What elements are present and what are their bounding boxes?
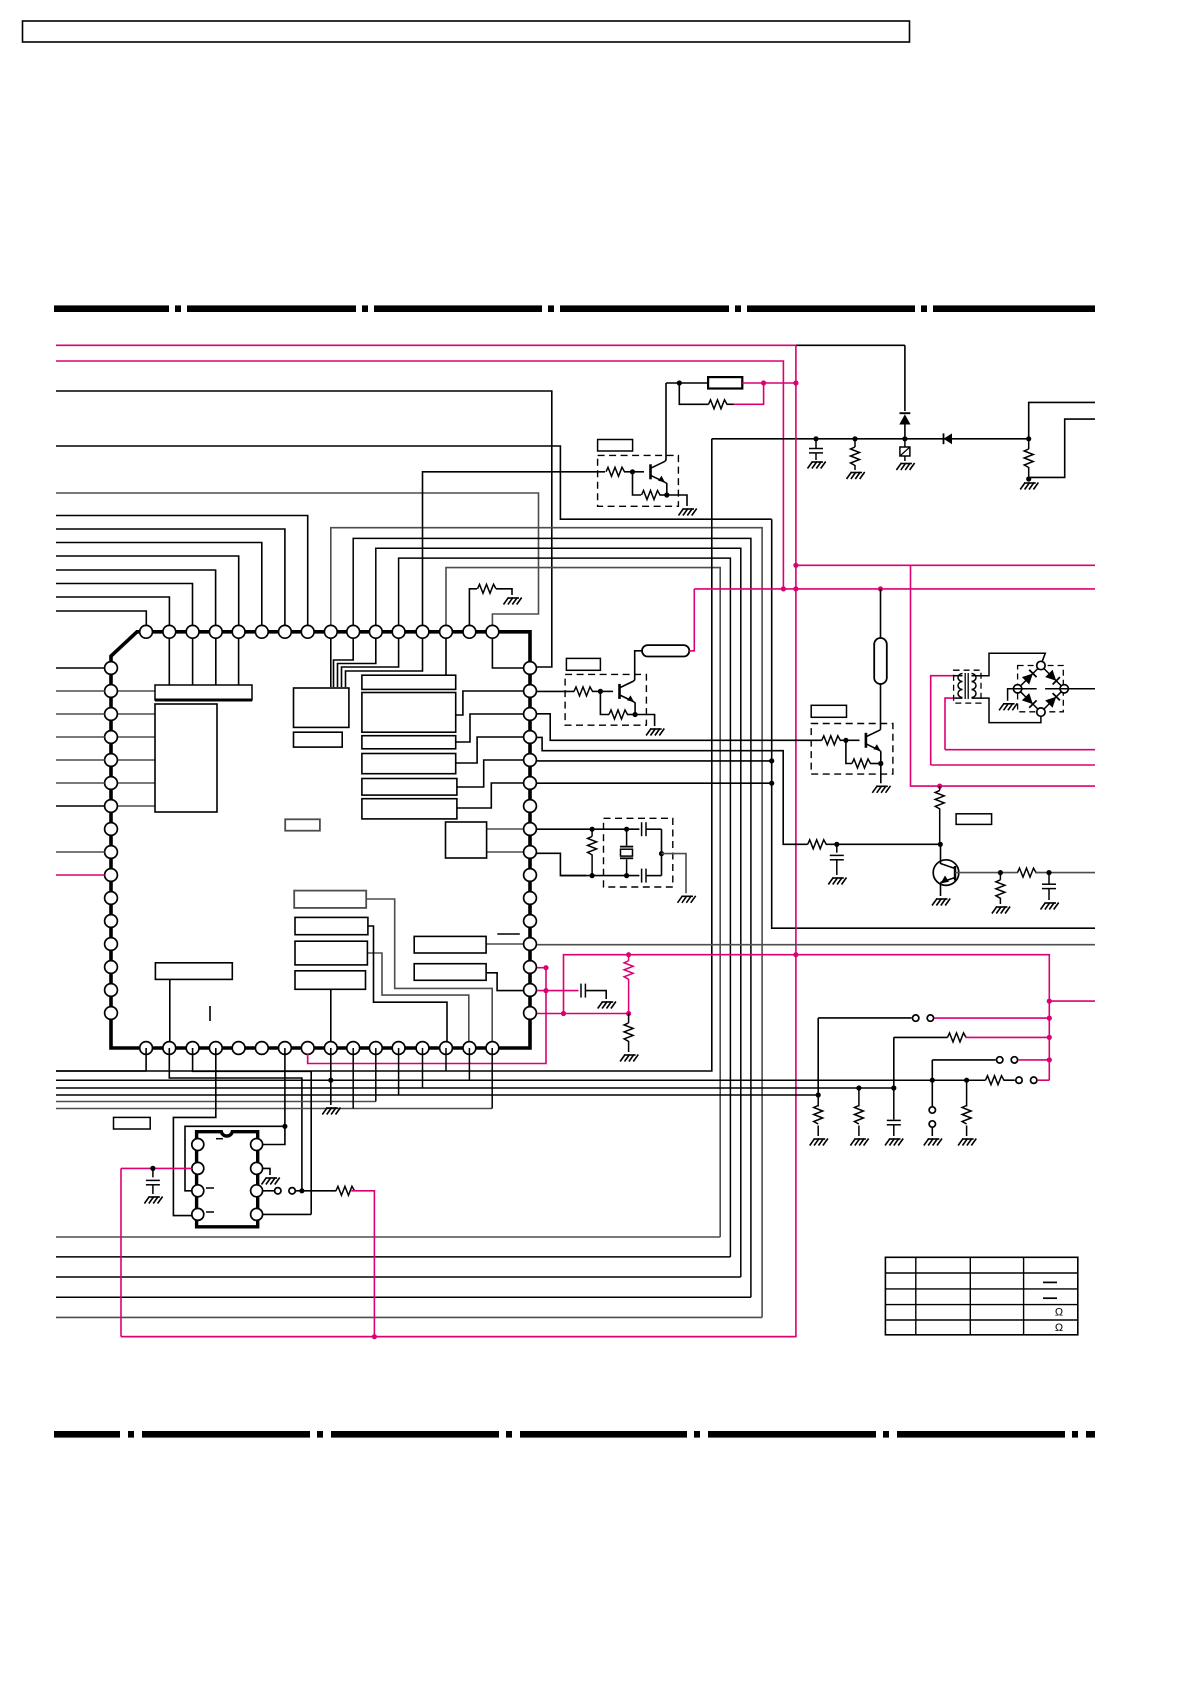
wire pin737R route — [537, 737, 808, 844]
node Q1 emitter — [664, 492, 669, 497]
net VCC-A (magenta top rail) — [56, 344, 796, 346]
wire corner up right — [1029, 402, 1095, 438]
node cap tap — [150, 1166, 155, 1171]
crystal X1 — [626, 829, 628, 845]
wire pin853 elbow — [537, 853, 586, 875]
capacitor C7 — [152, 1168, 154, 1177]
resistor R11 — [854, 439, 856, 447]
ground G13 — [896, 463, 901, 470]
wire Q3 emitter gnd — [880, 764, 882, 784]
wire to U2 pin3L — [185, 1126, 285, 1191]
wire pill2 top — [880, 589, 882, 638]
top separator bar — [54, 305, 169, 312]
resistor R8 divider top — [628, 955, 630, 961]
resistor R15 — [808, 840, 827, 849]
osc top rail — [592, 828, 639, 830]
bus row y1277 — [56, 1276, 741, 1278]
wire boxG to pin492B — [366, 899, 492, 1048]
wire osc to gnd — [662, 854, 687, 894]
block stack D — [362, 754, 456, 774]
resistor R22 — [966, 1080, 968, 1106]
ground G17 — [504, 598, 509, 605]
node row4 taps — [930, 1078, 935, 1083]
row R5 — [56, 1094, 818, 1096]
wire row4 resistor — [986, 1076, 1005, 1085]
capacitor C4 — [836, 844, 838, 852]
contacts SW3 — [1016, 1077, 1022, 1083]
wire top pins into label box — [168, 632, 170, 685]
ground GC3 — [598, 1002, 603, 1009]
row R1 — [56, 1070, 146, 1072]
net magenta vertA — [308, 968, 546, 1064]
net magenta bottom row — [121, 1336, 796, 1338]
net magenta rail y589 — [694, 588, 1095, 590]
ground GC4 — [828, 878, 833, 885]
wire U2 pin2R gnd — [262, 1168, 270, 1175]
net magenta pin308 — [307, 1054, 309, 1064]
resistor R9 divider bottom — [628, 1014, 630, 1023]
surge absorber Z1 — [904, 439, 906, 447]
block stack A — [362, 675, 456, 689]
dashed box Q3 — [811, 724, 893, 775]
wire feed pin691 — [56, 690, 105, 692]
wire T1 prim top — [954, 675, 963, 677]
capacitor C3 — [580, 984, 582, 998]
net R3 right magenta — [742, 382, 796, 384]
node Q2 base — [598, 689, 603, 694]
net pin967 magenta — [537, 967, 546, 969]
node Q1 base — [630, 469, 635, 474]
wire pin19 up-right — [376, 548, 741, 1277]
node Q3 base — [843, 738, 848, 743]
wire Q2 emitter gnd — [635, 715, 655, 727]
pill P1 — [642, 645, 689, 656]
wire T1 prim bot — [954, 697, 963, 699]
svg-text:Ω: Ω — [1055, 1322, 1063, 1334]
bus row y1317 — [56, 1316, 762, 1318]
wire R17 to gnd — [496, 589, 512, 595]
node Q2 emitter — [633, 712, 638, 717]
bus row y1237 — [56, 1236, 720, 1238]
svg-text:Ω: Ω — [1055, 1306, 1063, 1318]
wire boxK to pin944R — [486, 943, 530, 945]
wire pin331 gnd — [330, 1048, 332, 1105]
net pin990 to cap — [537, 990, 579, 992]
wire boxI to pin469B — [367, 953, 468, 1048]
resistor R14 — [939, 786, 941, 790]
block stack E — [362, 779, 457, 796]
resistor R7 (osc) — [591, 829, 593, 836]
bus to IC1 top pins — [56, 516, 308, 627]
wire boxM to pin169B — [169, 979, 171, 1048]
capacitor C1 (osc top) — [641, 822, 643, 836]
wire pin783R route — [537, 782, 772, 784]
wire pin21 base line to Q1 — [423, 472, 606, 626]
U2 pins — [192, 1139, 204, 1151]
block I — [295, 941, 367, 965]
transistor Q2 — [618, 684, 621, 699]
block stack B — [362, 693, 456, 733]
node out taps — [998, 870, 1003, 875]
osc right rail — [646, 828, 662, 830]
node C4 tap — [834, 842, 839, 847]
wire feed pin737 — [56, 736, 105, 738]
wire boxH to pin446B — [368, 926, 447, 1048]
net R19 magenta — [966, 1036, 1050, 1038]
ground GU2 — [262, 1178, 267, 1185]
resistor R19 — [948, 1033, 967, 1042]
wire Q4 emitter gnd — [940, 883, 942, 897]
wire pin691 base line — [537, 690, 574, 692]
wire pin469 drop — [468, 1048, 470, 1080]
table dashes — [1043, 1281, 1057, 1283]
bridge diodes — [1022, 674, 1033, 685]
node vertA dots — [543, 965, 548, 970]
wire to U2 pin1 — [262, 1126, 285, 1144]
ground GC6 — [885, 1139, 890, 1146]
net SW3 magenta — [1038, 1079, 1050, 1081]
wire jack row2 — [893, 1037, 895, 1088]
transistor Q3 — [865, 733, 868, 748]
block stack C — [362, 736, 456, 749]
U2 minus marks — [206, 1187, 214, 1189]
row R4 — [56, 1087, 894, 1089]
node R13 bottom — [1026, 476, 1031, 481]
wire pin760R route — [537, 760, 772, 762]
resistor R12 (Q3 emitter) — [846, 740, 852, 763]
transistor Q4 (circle) — [933, 860, 959, 886]
net magenta U2 pin2L — [121, 1167, 192, 1169]
net magenta main vertical — [121, 345, 796, 1336]
table grid — [885, 1257, 1077, 1335]
net magenta xfmr bot — [945, 698, 954, 750]
capacitor C6 — [893, 1088, 895, 1120]
contacts SW5 — [275, 1188, 281, 1194]
wire pin714R route — [537, 714, 822, 741]
ground G12 — [847, 472, 852, 479]
wire sqbox to pin852R — [487, 851, 530, 853]
dashed box Q2 — [565, 674, 646, 725]
resistor R2 (emitter) — [633, 472, 642, 495]
wire boxL to pin990R — [486, 973, 530, 991]
label Q2 — [566, 658, 600, 670]
resistor R17 — [478, 584, 497, 593]
wire jack row3 — [931, 1060, 933, 1080]
block B1 — [294, 688, 349, 727]
wire pin423 drop — [422, 1048, 424, 1088]
wire rail down to zener — [904, 345, 906, 411]
node joins on x772 — [769, 758, 774, 763]
wire pin192 route — [193, 1048, 312, 1214]
wire pins17-21 staircase to box — [330, 632, 332, 687]
row R2 pin169 — [169, 1048, 302, 1191]
node y786 tap — [937, 784, 942, 789]
net pill to magenta — [689, 589, 694, 651]
ground GC5 — [1041, 903, 1046, 910]
wire main rail — [712, 438, 1029, 440]
wire feed pin852 — [56, 851, 105, 853]
net magenta vert 910 — [911, 565, 1096, 786]
transistor Q1 — [649, 464, 652, 479]
resistor R23 — [336, 1186, 355, 1195]
dashed box T1 — [954, 670, 981, 703]
net R4 magenta return — [734, 383, 764, 404]
row R6 — [56, 1101, 376, 1103]
pill P2 (tall) — [874, 638, 887, 684]
row R3 long — [56, 1079, 986, 1081]
wire pin446 drop row — [445, 1048, 447, 1071]
wire stub right 2 — [1029, 419, 1095, 477]
wire boxC to pin714R — [456, 714, 530, 742]
ground G331 — [322, 1108, 327, 1115]
wire boxB to pin691R — [456, 691, 530, 715]
resistor R20 — [817, 1095, 819, 1107]
block L — [414, 964, 486, 981]
ground G21 — [850, 1139, 855, 1146]
wire U2 pin3R contacts — [262, 1190, 274, 1192]
wire Q3 collector — [879, 728, 881, 730]
diode D3 — [944, 433, 953, 444]
wire pin400 drop — [398, 1048, 400, 1095]
resistor R4 parallel loop — [679, 383, 708, 404]
node R3 left — [677, 380, 682, 385]
nodes osc — [590, 827, 595, 832]
net magenta feed pin875 — [56, 874, 105, 876]
wire feed pin784 — [56, 782, 105, 784]
net magenta rail y565 — [796, 564, 1095, 566]
capacitor C2 (osc bot) — [641, 869, 643, 883]
net pin1013 magenta — [537, 1013, 629, 1015]
IC1 pin circles — [140, 625, 153, 638]
ground GR16 — [992, 907, 997, 914]
capacitor C5 — [1048, 873, 1050, 884]
contacts SW4 vertical — [929, 1107, 935, 1113]
U2 pin1 mark — [216, 1138, 223, 1140]
label Q4 — [956, 814, 992, 825]
dashed box DB1 — [1018, 666, 1064, 712]
block tiny — [285, 819, 320, 830]
wire feed pin668 — [56, 667, 105, 669]
wire pin285 drop — [284, 1048, 286, 1126]
block H — [295, 917, 368, 934]
wire pin829 to osc — [537, 828, 592, 830]
bus row y1257 — [56, 1256, 730, 1258]
contacts SW2 — [997, 1057, 1003, 1063]
resistor R16 shunt — [999, 873, 1001, 880]
ground GX1 — [678, 896, 683, 903]
IC1 outline — [111, 632, 530, 1048]
node 3R — [299, 1188, 304, 1193]
wire bus vert 772 — [772, 519, 1095, 928]
wire U2 pin4R — [262, 1213, 311, 1215]
resistor R6 (emitter) — [600, 691, 609, 714]
wire pin146 drop — [145, 1048, 147, 1071]
node y589 taps — [781, 586, 786, 591]
net magenta rail y750 — [945, 749, 1095, 751]
resistor R18 series — [1018, 868, 1037, 877]
resistor R13 — [1028, 439, 1030, 449]
wire pin20 up-right — [399, 558, 731, 1257]
label Q3 — [811, 705, 846, 717]
node magenta taps — [793, 563, 798, 568]
net magenta xfmr top — [931, 676, 954, 765]
block G — [294, 891, 366, 908]
transformer T1 coils — [958, 674, 963, 682]
stub mark — [209, 1006, 211, 1021]
ground GR9 — [620, 1055, 625, 1062]
osc bottom rail — [560, 875, 639, 877]
wire left pins to box L2 — [111, 690, 155, 692]
block stack F — [362, 799, 457, 819]
ground G11 — [808, 462, 813, 469]
block J — [295, 971, 366, 990]
wire Q2 collector to pill — [634, 651, 642, 681]
wire Q4 base rail — [826, 843, 941, 845]
block B2 — [294, 732, 343, 747]
label Q1 — [598, 440, 633, 452]
node osc right — [659, 851, 664, 856]
ground GQ3 — [872, 786, 877, 793]
ground GQ1 — [679, 509, 684, 516]
wire Q1 collector — [665, 383, 666, 461]
wire pin944R long — [537, 944, 1095, 946]
dash mark near pin944 — [497, 933, 520, 935]
wire pin22 up-right — [446, 568, 720, 1237]
node Q4 base rail — [938, 842, 943, 847]
net vertB magenta — [564, 955, 1050, 1080]
wire SW5 to R23 — [296, 1190, 337, 1192]
net SW2 magenta — [1018, 1059, 1049, 1061]
ground GQ2 — [646, 729, 651, 736]
bridge DB1 diamond — [1041, 666, 1064, 689]
label U2 — [114, 1117, 151, 1129]
ground G20 — [810, 1139, 815, 1146]
block M label — [155, 963, 232, 980]
wire pin16 bridge to right pin — [492, 632, 530, 668]
wire pin23 to R-gnd — [469, 589, 477, 626]
U2 outline — [197, 1132, 258, 1227]
net R23 magenta down — [351, 1191, 374, 1337]
ground G14 — [1020, 483, 1025, 490]
wire boxD to pin737R — [456, 737, 530, 763]
wire jack row1 — [817, 1018, 819, 1095]
wire pin492 drop — [491, 1048, 493, 1109]
node row3 — [328, 1078, 333, 1083]
wire bridge right out — [1045, 688, 1095, 690]
node Q3 emitter — [878, 761, 883, 766]
wire pin22 into boxA — [445, 632, 447, 675]
net magenta left vert — [120, 1168, 122, 1336]
capacitor C11 — [815, 439, 817, 448]
wire feed pin760 — [56, 759, 105, 761]
wire boxE to pin760R — [457, 760, 530, 787]
zener diode D2 — [900, 412, 911, 414]
net SW1 magenta — [934, 1017, 1049, 1019]
title box — [23, 21, 910, 42]
resistor box R3 — [666, 382, 708, 384]
wire pin18 up-right — [353, 538, 751, 1297]
ground G23 — [958, 1139, 963, 1146]
bridge node circles — [1037, 661, 1045, 669]
resistor R21 — [858, 1088, 860, 1107]
node pin285 — [282, 1124, 287, 1129]
dashed box Q1 — [598, 455, 679, 506]
wire Q1 emitter to gnd — [667, 495, 687, 506]
block L2 (tall) — [155, 704, 217, 812]
row R7 — [56, 1108, 492, 1110]
node rail junctions — [813, 436, 818, 441]
contacts SW1 — [913, 1015, 919, 1021]
wire pin353 drop — [352, 1048, 354, 1109]
resistor R5 (base) — [565, 690, 567, 692]
wire boxF to pin783R — [457, 783, 530, 808]
wire feed pin714 — [56, 713, 105, 715]
net VCC-B (magenta rail 2) — [56, 361, 783, 589]
net magenta jack out — [1049, 1000, 1095, 1002]
wire pin375 drop — [375, 1048, 377, 1102]
node magenta jack verts — [1047, 999, 1052, 1004]
wire left feed 5 — [56, 493, 539, 626]
wire feed pin806 — [56, 805, 105, 807]
dashed box X1 — [604, 818, 673, 887]
wire pin17 up-right — [331, 528, 762, 1318]
wire Q4 collector out — [955, 872, 1018, 874]
ground G22 — [924, 1139, 929, 1146]
wire bus vert 711 — [56, 439, 712, 1071]
wire sqbox to pin829R — [487, 828, 530, 830]
wire left feed 4 — [56, 446, 772, 519]
bus row y1297 — [56, 1296, 751, 1298]
wire pill2 bottom to Q3 — [880, 684, 882, 728]
wire bridge left gnd — [1008, 689, 1037, 701]
net magenta rail y765 — [931, 764, 1095, 766]
wire pin216 route — [173, 1048, 215, 1216]
wire T1 sec bot — [972, 698, 1041, 723]
resistor R1 (base) — [606, 467, 625, 476]
block K — [414, 936, 486, 953]
ground GDB — [999, 703, 1004, 710]
wire left feed 3 — [56, 391, 552, 667]
bottom separator bar — [54, 1431, 120, 1438]
wire T1 sec top — [972, 653, 1046, 676]
node vertB dots — [561, 1011, 566, 1016]
resistor R10 (Q3 base) — [822, 736, 841, 745]
block square — [446, 822, 487, 858]
block label L1 (wide) — [155, 685, 252, 700]
ground GC7 — [144, 1197, 149, 1204]
wire boxJ to pin331B — [330, 990, 332, 1048]
